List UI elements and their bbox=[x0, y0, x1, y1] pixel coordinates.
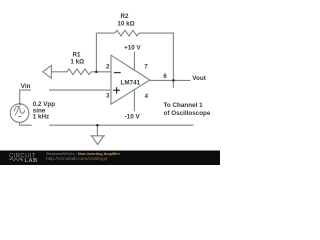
wire output pin 6 to Vout bbox=[150, 79, 191, 81]
svg-text:LAB: LAB bbox=[25, 158, 38, 164]
junction node A (R1/R2/pin2) bbox=[95, 71, 98, 74]
svg-text:1 kHz: 1 kHz bbox=[33, 114, 49, 121]
op-amp minus sign pin 2 bbox=[114, 72, 121, 74]
svg-text:1 kΩ: 1 kΩ bbox=[70, 59, 84, 66]
wire pin 4 supply stub bbox=[133, 90, 135, 111]
wire R1 to op-amp pin 2 bbox=[91, 71, 111, 73]
ground symbol wire stub bbox=[96, 125, 98, 136]
svg-text:To Channel 1: To Channel 1 bbox=[164, 102, 204, 109]
svg-text:http://circuitlab.com/c2wbyg4: http://circuitlab.com/c2wbyg4 bbox=[46, 156, 108, 162]
resistor R1 zigzag bbox=[67, 69, 91, 75]
svg-text:Vout: Vout bbox=[192, 75, 206, 82]
svg-text:StephanieMGehr / Non-Inverting: StephanieMGehr / Non-Inverting Amplifier bbox=[46, 152, 120, 156]
resistor R2 zigzag bbox=[115, 30, 139, 36]
svg-text:10 kΩ: 10 kΩ bbox=[117, 21, 134, 28]
junction ground node bbox=[96, 124, 99, 127]
wire R2 right lead to feedback corner bbox=[139, 33, 173, 80]
wire to op-amp pin 3 bbox=[49, 89, 111, 91]
wire R2 left lead bbox=[96, 32, 115, 34]
svg-text:Vin: Vin bbox=[21, 83, 31, 90]
svg-text:+10 V: +10 V bbox=[124, 44, 141, 51]
watermark logo lightning mark bbox=[21, 158, 23, 162]
wire bottom rail bbox=[49, 124, 193, 126]
watermark logo zigzag bbox=[9, 158, 23, 161]
wire pin 7 supply stub bbox=[133, 52, 135, 71]
wire arrow to R1 bbox=[51, 71, 67, 73]
source polarity plus bbox=[19, 103, 21, 105]
wire feedback left vertical (node A to R2) bbox=[95, 33, 97, 72]
wire Vin bottom lead bbox=[20, 122, 32, 125]
voltage source V1 circle bbox=[10, 104, 29, 123]
wire Vin top lead bbox=[20, 90, 31, 104]
wire output junction down stub bbox=[172, 80, 174, 88]
source V1 sine wave bbox=[14, 106, 25, 113]
svg-text:of Oscilloscope: of Oscilloscope bbox=[164, 110, 211, 117]
svg-text:-10 V: -10 V bbox=[125, 113, 141, 120]
svg-text:R2: R2 bbox=[120, 13, 129, 20]
ground symbol bbox=[90, 136, 105, 145]
input port arrow (left terminal) bbox=[43, 65, 52, 78]
source V1 arrow through bbox=[15, 106, 19, 116]
op-amp plus sign pin 3 bbox=[113, 87, 119, 94]
op-amp U1 triangle bbox=[111, 55, 150, 104]
watermark bar bbox=[0, 151, 220, 166]
source polarity minus bbox=[18, 116, 21, 118]
junction output node bbox=[172, 79, 175, 82]
svg-text:LM741: LM741 bbox=[120, 80, 140, 87]
svg-text:R1: R1 bbox=[72, 51, 81, 58]
